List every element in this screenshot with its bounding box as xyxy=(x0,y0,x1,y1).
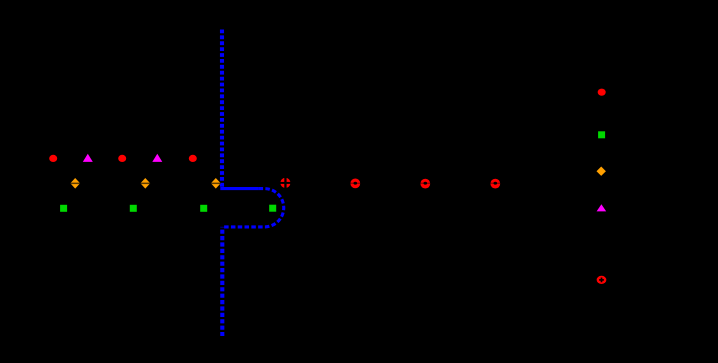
dashed boundary: upper vertical segment xyxy=(220,30,224,188)
red quartered circle marker (285,183) xyxy=(280,177,291,188)
green square marker (273,208) xyxy=(269,205,276,212)
orange diamond marker (75,183) xyxy=(70,178,80,189)
green square marker (204,208) xyxy=(200,205,207,212)
dashed boundary: hook arc segment xyxy=(222,189,283,227)
dashed boundary: lower vertical segment xyxy=(220,227,224,336)
legend magenta triangle marker xyxy=(597,204,607,211)
solid run of boundary at hook top xyxy=(220,187,258,190)
legend red circle marker xyxy=(598,89,606,96)
red donut marker (425,183) xyxy=(420,179,430,189)
magenta triangle marker (88,158) xyxy=(83,154,93,162)
green square marker (64,208) xyxy=(60,205,67,212)
legend orange diamond marker xyxy=(597,167,606,176)
legend green square marker xyxy=(598,131,605,138)
green square marker (133,208) xyxy=(130,205,137,212)
red circle marker (53,158) xyxy=(49,155,57,162)
orange diamond marker (216,183) xyxy=(211,178,221,189)
legend red circle-plus marker xyxy=(597,276,607,284)
red donut marker (495,183) xyxy=(490,179,500,189)
red circle marker (193,158) xyxy=(189,155,197,162)
magenta triangle marker (158,158) xyxy=(152,154,162,162)
red circle marker (123,158) xyxy=(118,155,126,162)
orange diamond marker (145,183) xyxy=(140,178,150,189)
red donut marker (355,183) xyxy=(350,179,360,189)
